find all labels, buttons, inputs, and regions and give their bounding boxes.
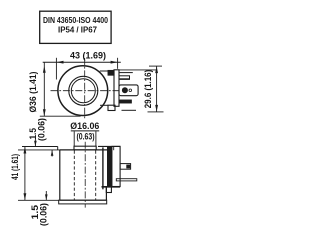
svg-text:(0.06): (0.06) <box>39 203 49 226</box>
svg-text:(0.63): (0.63) <box>77 132 95 142</box>
svg-text:41 (1.61): 41 (1.61) <box>10 154 20 180</box>
svg-text:(0.06): (0.06) <box>36 118 46 141</box>
svg-text:29.6 (1.16): 29.6 (1.16) <box>143 70 153 109</box>
svg-text:Ø36 (1.41): Ø36 (1.41) <box>28 72 38 113</box>
svg-text:Ø16.06: Ø16.06 <box>70 121 99 131</box>
svg-text:43 (1.69): 43 (1.69) <box>70 51 106 61</box>
svg-text:IP54 / IP67: IP54 / IP67 <box>58 25 97 35</box>
